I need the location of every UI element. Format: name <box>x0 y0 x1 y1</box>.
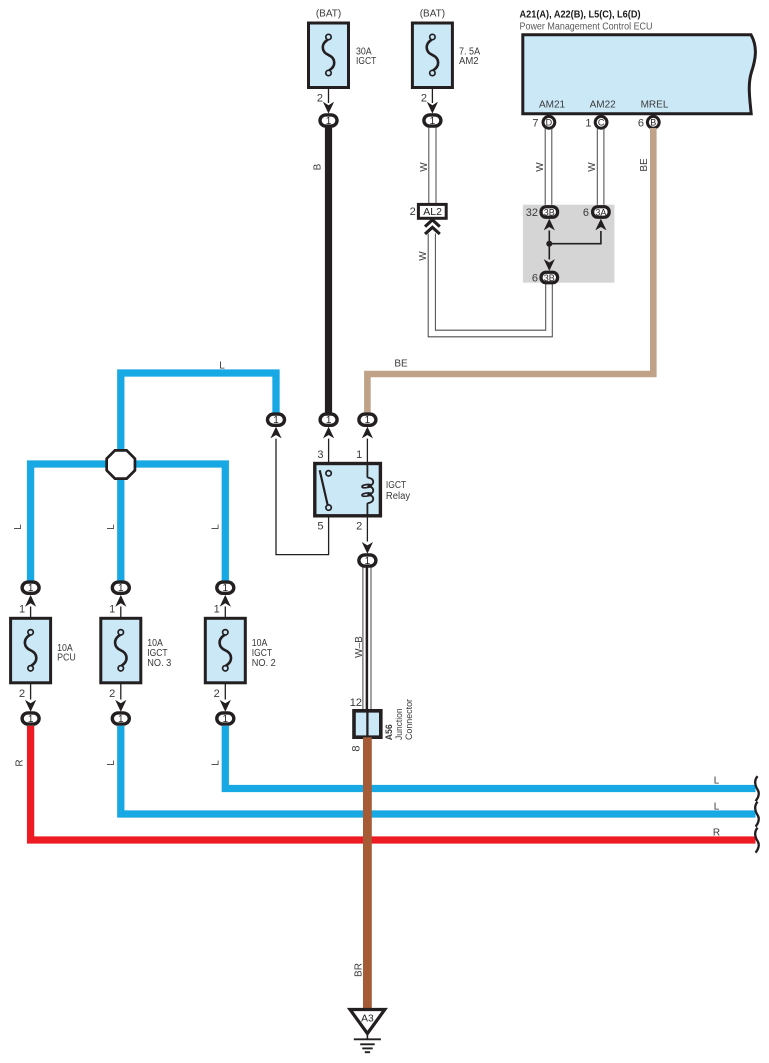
svg-text:IGCT: IGCT <box>386 480 406 491</box>
svg-text:1: 1 <box>214 604 220 616</box>
svg-text:BE: BE <box>639 158 650 172</box>
svg-text:W: W <box>418 251 429 261</box>
svg-text:1: 1 <box>118 583 124 594</box>
svg-text:BR: BR <box>353 963 364 977</box>
svg-text:L: L <box>106 524 117 530</box>
svg-text:L: L <box>714 775 720 786</box>
svg-text:12: 12 <box>350 697 362 709</box>
svg-text:2: 2 <box>317 93 323 105</box>
svg-text:7: 7 <box>532 117 538 129</box>
svg-text:NO. 3: NO. 3 <box>147 658 171 669</box>
svg-text:Junction: Junction <box>394 708 404 740</box>
svg-text:L: L <box>106 760 117 766</box>
svg-text:(BAT): (BAT) <box>420 9 445 20</box>
svg-text:6: 6 <box>638 117 644 129</box>
svg-text:2: 2 <box>214 688 220 700</box>
svg-text:2: 2 <box>410 206 416 218</box>
svg-text:B: B <box>313 163 324 170</box>
svg-text:Connector: Connector <box>404 699 414 740</box>
svg-text:W–B: W–B <box>354 636 365 658</box>
svg-text:3A: 3A <box>595 208 606 218</box>
svg-text:L: L <box>210 760 221 766</box>
svg-text:2: 2 <box>19 688 25 700</box>
svg-text:A3: A3 <box>361 1013 374 1024</box>
svg-text:1: 1 <box>365 556 371 567</box>
svg-text:1: 1 <box>109 604 115 616</box>
svg-text:NO. 2: NO. 2 <box>252 658 276 669</box>
svg-text:B: B <box>650 118 656 128</box>
svg-text:D: D <box>546 118 553 128</box>
svg-text:AM22: AM22 <box>590 100 617 111</box>
svg-text:R: R <box>713 828 720 839</box>
svg-text:8: 8 <box>351 745 363 751</box>
svg-text:1: 1 <box>28 583 34 594</box>
svg-text:1: 1 <box>273 415 279 426</box>
svg-text:Relay: Relay <box>386 491 410 502</box>
svg-text:2: 2 <box>109 688 115 700</box>
svg-text:6: 6 <box>532 273 538 285</box>
svg-text:1: 1 <box>326 116 332 127</box>
svg-text:3: 3 <box>317 449 323 461</box>
svg-text:1: 1 <box>365 415 371 426</box>
svg-text:L: L <box>219 361 225 372</box>
svg-text:AM2: AM2 <box>459 56 479 67</box>
svg-text:1: 1 <box>223 714 229 725</box>
svg-text:R: R <box>15 759 26 766</box>
svg-text:C: C <box>598 118 605 128</box>
svg-text:1: 1 <box>19 604 25 616</box>
svg-text:1: 1 <box>356 449 362 461</box>
svg-text:IGCT: IGCT <box>356 56 376 67</box>
svg-text:L: L <box>714 801 720 812</box>
svg-text:PCU: PCU <box>57 653 76 664</box>
svg-text:MREL: MREL <box>641 100 669 111</box>
svg-text:AM21: AM21 <box>539 100 566 111</box>
svg-text:1: 1 <box>430 116 436 127</box>
svg-text:1: 1 <box>28 714 34 725</box>
svg-text:3B: 3B <box>544 273 555 283</box>
svg-text:2: 2 <box>356 521 362 533</box>
svg-text:L: L <box>13 524 24 530</box>
svg-text:BE: BE <box>394 359 408 370</box>
svg-text:W: W <box>587 162 598 172</box>
svg-text:Power Management Control ECU: Power Management Control ECU <box>520 22 653 33</box>
svg-text:6: 6 <box>583 207 589 219</box>
svg-text:(BAT): (BAT) <box>316 9 341 20</box>
svg-text:1: 1 <box>585 117 591 129</box>
svg-text:32: 32 <box>526 207 538 219</box>
svg-text:3B: 3B <box>544 208 555 218</box>
svg-text:1: 1 <box>326 415 332 426</box>
svg-text:2: 2 <box>421 93 427 105</box>
svg-text:L: L <box>210 524 221 530</box>
svg-text:AL2: AL2 <box>423 206 442 218</box>
svg-text:A21(A), A22(B), L5(C), L6(D): A21(A), A22(B), L5(C), L6(D) <box>520 10 641 21</box>
svg-text:1: 1 <box>223 583 229 594</box>
svg-text:W: W <box>535 162 546 172</box>
svg-text:W: W <box>419 162 430 172</box>
svg-text:1: 1 <box>118 714 124 725</box>
svg-text:5: 5 <box>317 521 323 533</box>
